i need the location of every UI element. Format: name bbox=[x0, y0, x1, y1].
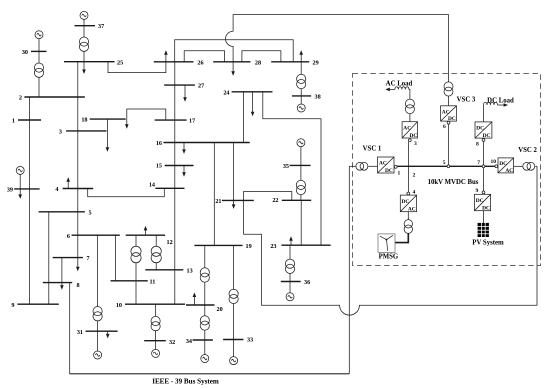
wire transformer to VSC1 box bbox=[368, 165, 377, 167]
wire T10-32 to bus 32 bbox=[155, 331, 157, 341]
transformer T23-36 bbox=[285, 259, 294, 273]
bus 21 bbox=[222, 199, 254, 201]
generator G38 bbox=[297, 104, 305, 112]
bus 32 bbox=[144, 340, 166, 342]
wire 17-18 and load arrow bus 18 bbox=[125, 109, 166, 129]
svg-text:5: 5 bbox=[89, 209, 92, 216]
svg-text:VSC 1: VSC 1 bbox=[363, 145, 382, 152]
bus 22 bbox=[282, 199, 311, 201]
wire T29-38 to bus 38 bbox=[300, 89, 302, 96]
svg-text:PV System: PV System bbox=[472, 240, 504, 247]
transformer T30-2 bbox=[34, 63, 43, 77]
wire 5-8-9 vertical bbox=[48, 212, 50, 304]
bus 29 bbox=[271, 61, 309, 63]
svg-text:6: 6 bbox=[443, 124, 446, 130]
wire T30 to bus 2 bbox=[38, 77, 40, 97]
wire 19 to T19-33 bbox=[233, 245, 235, 289]
svg-text:12: 12 bbox=[167, 239, 173, 246]
svg-text:25: 25 bbox=[117, 59, 123, 66]
svg-text:AC: AC bbox=[379, 161, 387, 167]
svg-text:AC: AC bbox=[505, 168, 513, 174]
svg-text:32: 32 bbox=[169, 339, 175, 346]
wire 7-8 and load arrow bus 8 bbox=[60, 258, 64, 290]
converter box 10 DC/AC VSC2 bbox=[498, 158, 514, 174]
wire 28-29 staple bbox=[242, 51, 281, 62]
svg-text:9: 9 bbox=[11, 302, 14, 309]
wire 19 to T19-20 bbox=[204, 245, 206, 267]
svg-text:27: 27 bbox=[198, 83, 204, 90]
wire G37 to bus 37 bbox=[83, 19, 85, 26]
wire T20-34 to bus 34 bbox=[204, 330, 206, 340]
bus 17 bbox=[155, 119, 187, 121]
svg-text:10: 10 bbox=[491, 159, 497, 165]
bus 39 bbox=[14, 188, 39, 190]
long vertical 2-1-39-9 bbox=[28, 97, 30, 304]
arrow into bus 23 bbox=[289, 236, 293, 245]
bus 10 bbox=[125, 303, 185, 305]
wire 3-18 and load arrow bus 3 bbox=[106, 119, 110, 152]
wire T6-31 to bus 31 bbox=[97, 321, 99, 331]
wire bus 38 to G38 bbox=[300, 96, 302, 104]
transformer T35-22 bbox=[296, 180, 305, 194]
wire 4-14 bbox=[88, 188, 165, 197]
svg-text:37: 37 bbox=[98, 23, 104, 30]
bus 3 bbox=[66, 130, 106, 132]
svg-text:13: 13 bbox=[187, 267, 193, 274]
bus 30 bbox=[31, 50, 47, 52]
bus 7 bbox=[53, 257, 83, 259]
long vertical 26-27-17-16-15-14-13-10 bbox=[174, 62, 176, 304]
node 1 bbox=[394, 166, 397, 169]
bus 1 bbox=[18, 119, 41, 121]
wire 20 to T20-34 bbox=[204, 305, 206, 316]
svg-text:22: 22 bbox=[272, 197, 278, 204]
svg-text:6: 6 bbox=[67, 233, 70, 240]
svg-text:36: 36 bbox=[304, 279, 310, 286]
node 3 bbox=[408, 139, 411, 142]
transformer T29-38 bbox=[297, 74, 306, 88]
svg-text:29: 29 bbox=[313, 59, 319, 66]
svg-text:15: 15 bbox=[156, 162, 162, 169]
svg-text:IEEE - 39 Bus System: IEEE - 39 Bus System bbox=[152, 378, 219, 386]
generator G30 bbox=[35, 31, 43, 39]
arrow into bus 20 bbox=[193, 293, 197, 306]
generator G34 bbox=[201, 355, 209, 363]
svg-text:21: 21 bbox=[215, 198, 221, 205]
wire 12 to T12-11 bbox=[135, 235, 137, 246]
wire T37 to bus 25 bbox=[83, 51, 85, 61]
bus 38 bbox=[292, 95, 311, 97]
load arrow bus 24 bbox=[251, 92, 255, 117]
bus 13 bbox=[145, 269, 183, 271]
dashed MVDC box bbox=[352, 74, 540, 266]
bus 34 bbox=[193, 339, 213, 341]
transformer T12-13 bbox=[151, 246, 161, 263]
bus 36 bbox=[281, 281, 301, 283]
node 9 bbox=[482, 191, 485, 194]
svg-text:8: 8 bbox=[476, 141, 479, 147]
PMSG box wind turbine bbox=[378, 234, 395, 253]
svg-text:10kV MVDC Bus: 10kV MVDC Bus bbox=[428, 179, 479, 186]
bus 9 bbox=[17, 303, 58, 305]
node 7 bbox=[482, 165, 485, 168]
node 8 bbox=[482, 139, 485, 142]
bus 15 bbox=[165, 165, 194, 167]
transformer T37-25 bbox=[79, 37, 88, 51]
svg-text:4: 4 bbox=[413, 190, 416, 196]
bus 12 bbox=[126, 234, 165, 236]
wire 2-25 long vertical through buses 2,3,4,5 bbox=[77, 62, 79, 236]
bus 27 bbox=[164, 84, 195, 86]
node 10 bbox=[495, 165, 498, 168]
generator G36 bbox=[286, 293, 294, 301]
transformer PMSG bbox=[404, 220, 412, 234]
wire T35-22 to bus 22 bbox=[300, 195, 302, 201]
wire transformer VSC2 to right down bbox=[535, 165, 537, 167]
wire 25-26 bbox=[108, 54, 166, 73]
wire VSC1 to MVDC area bbox=[349, 165, 356, 167]
wire VSC2 return from bus 22 to right with hop bbox=[244, 166, 537, 315]
converter box 3 AC/DC bbox=[402, 122, 417, 139]
bus 11 bbox=[111, 280, 148, 282]
svg-text:DC Load: DC Load bbox=[487, 97, 514, 104]
converter VSC1 box AC/DC bbox=[378, 157, 395, 174]
bus 37 bbox=[75, 25, 96, 27]
wire bus 36 to G36 bbox=[289, 282, 291, 294]
wire T19-33 to bus 33 bbox=[233, 304, 235, 340]
wire bus 28 to VSC3 top line with hop bbox=[226, 15, 449, 82]
svg-text:19: 19 bbox=[246, 243, 252, 250]
svg-text:DC: DC bbox=[385, 168, 393, 174]
svg-text:AC: AC bbox=[442, 109, 450, 115]
bus 16 bbox=[164, 142, 250, 144]
svg-text:34: 34 bbox=[186, 338, 192, 345]
bus 2 bbox=[24, 96, 84, 98]
wire bus 8 to bottom and to VSC1 bbox=[70, 283, 350, 374]
svg-text:VSC 3: VSC 3 bbox=[457, 97, 476, 104]
load arrow bus 31 bbox=[106, 331, 110, 338]
bus 19 bbox=[194, 244, 242, 246]
svg-text:2: 2 bbox=[19, 95, 22, 102]
wire 16-24 bbox=[242, 92, 244, 143]
svg-text:2: 2 bbox=[413, 173, 416, 179]
svg-text:30: 30 bbox=[22, 49, 28, 56]
arrow into bus 12 bbox=[144, 226, 148, 235]
svg-text:1: 1 bbox=[398, 171, 401, 177]
svg-text:DC: DC bbox=[476, 198, 484, 204]
generator G39 bbox=[16, 166, 24, 174]
node 4 bbox=[407, 192, 410, 195]
svg-text:1: 1 bbox=[12, 118, 15, 125]
svg-text:DC: DC bbox=[410, 133, 418, 139]
svg-text:PMSG: PMSG bbox=[379, 253, 399, 260]
transformer VSC1 bbox=[356, 162, 368, 170]
load arrow bus 25 bbox=[82, 62, 86, 74]
wire 6 to T6-31 bbox=[97, 235, 99, 306]
generator G33 bbox=[230, 357, 238, 365]
wire transformer to PMSG box bbox=[395, 233, 408, 242]
svg-text:DC: DC bbox=[499, 161, 507, 167]
wire 26-29 overhead bbox=[175, 40, 294, 62]
wire 10 to T10-32 bbox=[155, 304, 157, 316]
node 6 bbox=[447, 121, 450, 124]
wire 35 to T35-22 bbox=[300, 165, 302, 180]
transformer T12-11 bbox=[131, 246, 141, 263]
wire 22-23 bbox=[300, 200, 302, 245]
wire 12 to T12-13 bbox=[155, 235, 157, 246]
bus 26 bbox=[154, 61, 194, 63]
wire bus 34 to G34 bbox=[204, 340, 206, 355]
wire 16-21 and load arrow bus 21 bbox=[232, 143, 236, 209]
bus 14 bbox=[155, 187, 184, 189]
bus 5 bbox=[39, 211, 85, 213]
bus 23 bbox=[281, 244, 330, 246]
wire node8 to node9 through node 7 bbox=[483, 141, 485, 191]
wire bus 30 to T30 bbox=[38, 51, 40, 63]
svg-text:9: 9 bbox=[476, 188, 479, 194]
wire node2 vertical to node3 and node4 bbox=[408, 142, 410, 192]
svg-text:7: 7 bbox=[477, 160, 480, 166]
svg-text:3: 3 bbox=[59, 128, 62, 135]
svg-text:3: 3 bbox=[414, 141, 417, 147]
svg-text:4: 4 bbox=[55, 186, 58, 193]
arrow into bus 26 bbox=[164, 50, 168, 55]
wire bus 37 to T37 bbox=[83, 26, 85, 37]
load arrow bus 15 bbox=[182, 166, 186, 177]
generator G37 bbox=[80, 11, 88, 19]
load arrow bus 28 bbox=[231, 62, 235, 76]
wire bus 32 to G32 bbox=[155, 341, 157, 350]
bus 4 bbox=[63, 188, 94, 190]
svg-text:17: 17 bbox=[189, 118, 195, 125]
wire T29-38 to bus 29 and arrow up through bus 29 bbox=[299, 50, 303, 74]
transformer T19-20 bbox=[200, 268, 209, 282]
converter VSC3 box AC/DC bbox=[441, 106, 457, 122]
transformer T6-31 bbox=[93, 307, 102, 321]
svg-text:DC: DC bbox=[476, 126, 484, 132]
svg-text:18: 18 bbox=[81, 116, 87, 123]
wire G35 to bus 35 bbox=[300, 147, 302, 166]
AC load coil and arrow bbox=[385, 87, 410, 100]
svg-text:11: 11 bbox=[150, 278, 156, 285]
wire VSC1 vertical bbox=[348, 166, 350, 373]
arrow into bus 4 bbox=[66, 177, 70, 188]
converter box 4 DC/AC bbox=[400, 195, 416, 212]
PV panel bbox=[478, 223, 489, 237]
wire bus 33 to G33 bbox=[233, 340, 235, 357]
svg-text:10: 10 bbox=[116, 302, 122, 309]
wire 26-28 staple bbox=[184, 51, 224, 62]
wire T23-36 to bus 36 bbox=[289, 274, 291, 282]
svg-text:5: 5 bbox=[443, 160, 446, 166]
bus 31 bbox=[86, 330, 118, 332]
generator G32 bbox=[152, 349, 160, 357]
wire G39 to bus 39 bbox=[19, 174, 21, 189]
svg-text:7: 7 bbox=[87, 255, 90, 262]
bus 33 bbox=[223, 339, 243, 341]
svg-text:31: 31 bbox=[77, 329, 83, 336]
wire 23 to T23-36 bbox=[289, 245, 291, 259]
bus 18 bbox=[90, 118, 126, 120]
generator G35 bbox=[297, 139, 305, 147]
generator G31 bbox=[94, 351, 102, 359]
svg-text:16: 16 bbox=[156, 140, 162, 147]
DC load coil and arrow bbox=[484, 102, 509, 122]
svg-text:AC Load: AC Load bbox=[386, 81, 413, 88]
svg-text:DC: DC bbox=[402, 199, 410, 205]
bus 24 bbox=[232, 91, 273, 93]
svg-text:38: 38 bbox=[315, 94, 321, 101]
bus 8 bbox=[43, 282, 72, 284]
wire 6-7 and load arrow bus 7 bbox=[76, 235, 80, 271]
wire node6 to node5 bbox=[448, 124, 450, 166]
transformer T19-33 bbox=[229, 289, 238, 303]
transformer AC load bbox=[405, 99, 414, 114]
transformer T10-32 bbox=[151, 316, 160, 330]
svg-text:39: 39 bbox=[7, 187, 13, 194]
svg-text:AC: AC bbox=[408, 206, 416, 212]
converter box 9 DC/DC bbox=[475, 194, 491, 211]
wire T12-11 to bus 11 and 10-11 bbox=[135, 263, 137, 305]
node 5 bbox=[447, 165, 450, 168]
load arrow bus 39 bbox=[18, 189, 22, 199]
svg-text:VSC 2: VSC 2 bbox=[518, 147, 537, 154]
load arrow bus 16 bbox=[182, 143, 186, 154]
bus 20 bbox=[186, 304, 215, 306]
wire 23-24 bbox=[263, 92, 321, 245]
transformer VSC2 bbox=[523, 162, 535, 170]
bus 28 bbox=[213, 61, 250, 63]
svg-text:23: 23 bbox=[270, 243, 276, 250]
wire T12-13 to bus 13 bbox=[155, 263, 157, 270]
wire 16-19 bbox=[213, 143, 215, 246]
wire VSC3 transformer bbox=[444, 82, 453, 96]
bottom border line bbox=[70, 373, 350, 375]
svg-text:14: 14 bbox=[149, 181, 155, 188]
wire 6-11 bbox=[115, 235, 117, 281]
svg-text:33: 33 bbox=[247, 336, 253, 343]
svg-text:26: 26 bbox=[197, 59, 203, 66]
wire box9 to PV panel bbox=[483, 211, 485, 223]
transformer T20-34 bbox=[200, 316, 209, 330]
wire box10 to VSC2 transformer bbox=[514, 165, 523, 167]
bus 6 bbox=[72, 234, 120, 236]
wire box4 to PMSG transformer bbox=[407, 212, 409, 220]
MVDC bus bbox=[397, 165, 495, 167]
wire bus 31 to G31 bbox=[97, 331, 99, 351]
wire G30 to bus 30 bbox=[38, 39, 40, 52]
wire transformer to VSC3 box bbox=[448, 96, 450, 106]
svg-text:8: 8 bbox=[77, 282, 80, 289]
svg-text:35: 35 bbox=[283, 163, 289, 170]
svg-text:28: 28 bbox=[255, 59, 261, 66]
bus 35 bbox=[290, 164, 311, 166]
svg-text:24: 24 bbox=[223, 89, 229, 96]
load arrow bus 27 bbox=[183, 85, 187, 102]
svg-text:20: 20 bbox=[217, 306, 223, 313]
svg-text:AC: AC bbox=[403, 126, 411, 132]
wire T19-20 to bus 20 bbox=[204, 282, 206, 305]
bus 25 bbox=[64, 61, 115, 63]
wire box3 to AC load transformer bbox=[409, 114, 411, 122]
converter box 8 DC/DC bbox=[475, 122, 492, 139]
